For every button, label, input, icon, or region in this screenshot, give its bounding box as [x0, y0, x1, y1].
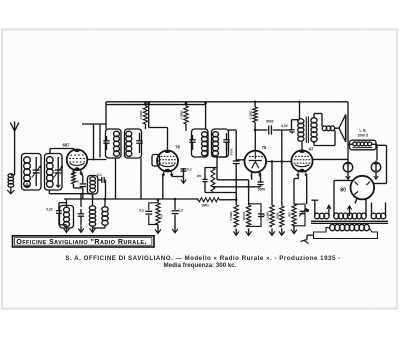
wire TC2 bottom to link: [48, 190, 50, 194]
mains lead and switch S1: [307, 234, 314, 236]
bias resistor R7: [292, 204, 296, 226]
T4 center tap: [349, 207, 351, 216]
coil L3: [47, 157, 54, 164]
bias capacitor C12 loop: [294, 204, 305, 226]
wire tone line down to V3 top: [254, 130, 256, 151]
wire bus to T2: [205, 105, 207, 129]
svg-text:0,5MΩ: 0,5MΩ: [180, 110, 184, 120]
loudspeaker LS1: [339, 115, 346, 142]
ground R7: [293, 226, 295, 228]
wire V3 left pin to detector line: [251, 173, 253, 180]
arrow below C11: [375, 174, 377, 179]
svg-text:25000: 25000: [242, 211, 246, 220]
detector output wire 1: [217, 179, 249, 181]
volume potentiometer P1: [205, 168, 213, 180]
capacitor C17 parallel with R10: [249, 204, 261, 227]
T1 primary trimmer capacitor: [103, 140, 109, 142]
resistor R11 0.1mO plate load: [271, 162, 273, 206]
V3 coupling capacitor C8 5000: [260, 173, 262, 182]
wire T3 secondary to voice coil: [313, 114, 315, 119]
svg-text:5000: 5000: [258, 188, 266, 192]
svg-text:80: 80: [340, 188, 346, 194]
tube V1 6A7 converter: [67, 150, 88, 171]
V5 plate wire: [374, 183, 387, 185]
coil L7: [102, 207, 108, 212]
capacitor C14: [80, 194, 82, 207]
ground R9: [235, 229, 237, 235]
T1 secondary coil: [126, 131, 132, 136]
wire V3 plate to V4 grid: [266, 161, 291, 163]
T4 core: [311, 220, 388, 222]
upper link wire: [78, 193, 93, 195]
AVC bus wire: [64, 198, 198, 200]
wire up to T3 primary: [291, 120, 293, 130]
ground L5: [66, 226, 68, 232]
shield box tuned circuit 2: [45, 154, 63, 191]
wire bus down to filter: [347, 102, 349, 161]
grid capacitor C6: [233, 160, 240, 162]
svg-text:700: 700: [160, 214, 164, 219]
wire T2 secondary bottom to P1: [226, 143, 228, 157]
wire P1 top to detector lines: [213, 167, 217, 169]
T3 secondary coil: [311, 118, 317, 123]
svg-text:1MΩ: 1MΩ: [201, 204, 209, 208]
grid shield box left of V2: [152, 155, 160, 167]
T2 primary trimmer capacitor: [189, 139, 195, 141]
tone capacitor C9 5000: [268, 125, 270, 134]
svg-text:0,1MΩ: 0,1MΩ: [266, 211, 270, 221]
choke output wires: [376, 144, 378, 160]
grid network vertical wires: [235, 179, 238, 182]
shield box tuned circuit 1: [22, 154, 42, 191]
choke core line: [353, 147, 373, 149]
svg-text:47: 47: [309, 147, 314, 152]
svg-text:0,1MΩ: 0,1MΩ: [249, 110, 253, 120]
svg-text:78: 78: [175, 145, 180, 150]
electrolytic capacitor C11: [371, 163, 380, 172]
T4 filament winding 1: [314, 213, 319, 219]
variable capacitor C2: [55, 169, 62, 171]
ground at C5: [183, 177, 185, 183]
IF transformer T2 shield box right: [212, 129, 229, 157]
AVC resistor R4 1mO horizontal: [198, 198, 219, 202]
resistor R10 25000: [246, 205, 250, 227]
ground below L1: [10, 187, 12, 194]
P1 bottom wire: [205, 192, 236, 194]
wire bus to T3: [299, 102, 301, 119]
svg-text:687: 687: [63, 143, 71, 148]
output transformer T3 primary coil: [298, 119, 304, 124]
tube V4 47 output: [291, 150, 312, 171]
T4 primary winding: [330, 224, 335, 230]
arrow below C10: [347, 174, 349, 179]
power transformer T4 high voltage winding: [334, 213, 339, 219]
ground R10: [248, 229, 250, 235]
screen dropping resistor R2: [143, 106, 147, 124]
IF transformer T1 shield box right: [125, 129, 142, 158]
IF transformer T2 shield box left: [192, 129, 209, 157]
capacitor C9b at transformer: [289, 129, 294, 131]
wire V1 plate to IFT1: [88, 159, 107, 161]
ground R11: [271, 229, 273, 235]
filter choke L.B. 2000 ohm: [350, 140, 377, 150]
wire T1 secondary return to AVC bus: [140, 158, 142, 199]
IF transformer T1 shield box left: [106, 129, 122, 158]
tube V3 75 detector: [245, 151, 267, 173]
svg-text:0,1: 0,1: [187, 168, 192, 172]
cathode bypass capacitor C3: [81, 171, 83, 176]
B+ bus wire: [106, 101, 348, 103]
V5 filament leads: [355, 199, 357, 204]
svg-text:2m: 2m: [197, 174, 202, 178]
V4 top cap wire to output transformer: [301, 142, 303, 150]
svg-text:0,2: 0,2: [139, 209, 144, 213]
rectifier tube V5 80: [351, 176, 375, 200]
resistor R8 700: [157, 199, 160, 202]
resistor R12 1mO grid leak: [281, 130, 283, 206]
svg-text:75: 75: [262, 145, 267, 150]
svg-text:0,02: 0,02: [281, 124, 287, 128]
banner box Officine Savigliano Radio Rurale: [13, 236, 155, 247]
V4 filament wire right: [313, 158, 348, 160]
oscillator tracking coil L5: [60, 206, 74, 229]
wire T1 to V2 grid: [148, 105, 150, 128]
arrow at TC2 bottom: [57, 183, 59, 187]
capacitor C7 in P1 branch: [202, 178, 207, 180]
wire C6 to V3 grid: [236, 159, 245, 161]
wire T2 top to grid capacitor C6: [229, 129, 237, 131]
svg-text:Media frequenza: 300 kc.: Media frequenza: 300 kc.: [164, 262, 237, 269]
resistor R5 0.1mO from bus: [254, 102, 256, 107]
coil L2: [24, 157, 31, 164]
svg-text:5000: 5000: [266, 120, 273, 124]
svg-text:2000 Ω: 2000 Ω: [358, 134, 369, 138]
detector output wire 2: [213, 186, 261, 188]
svg-text:1m: 1m: [74, 180, 79, 184]
antenna: [14, 130, 16, 175]
arrow at TC1 bottom: [26, 183, 28, 187]
T2 secondary trimmer capacitor: [223, 139, 229, 141]
ground C16: [174, 226, 176, 232]
T2 secondary coil: [213, 132, 219, 137]
svg-text:0,1: 0,1: [97, 173, 102, 177]
ground C14: [80, 226, 82, 232]
ground L6: [92, 226, 94, 232]
T4 primary enclosure: [314, 228, 378, 239]
T4 filament winding 2: [371, 213, 376, 219]
T1 primary coil: [114, 131, 120, 136]
svg-text:1MΩ: 1MΩ: [276, 212, 280, 219]
wire V5 filament to winding: [333, 180, 335, 212]
voice coil: [322, 126, 326, 131]
svg-text:L. B.: L. B.: [360, 129, 367, 133]
oscillator coil L4: [87, 176, 97, 195]
T3 core: [305, 117, 307, 144]
svg-text:0,2: 0,2: [178, 209, 183, 213]
wire C4 down to AVC bus: [105, 180, 107, 199]
V1 screen lead wires: [93, 124, 95, 161]
cathode resistor R1: [73, 170, 75, 172]
T1 secondary trimmer capacitor: [136, 140, 142, 142]
resistor R9 0.5mO: [235, 198, 238, 201]
coil L6: [89, 206, 95, 210]
svg-text:0,5MΩ: 0,5MΩ: [139, 110, 143, 120]
V2 cathode wire: [162, 174, 164, 200]
V4 cathode down wire: [306, 177, 308, 205]
ground R8: [157, 225, 159, 229]
ground R12: [281, 229, 283, 235]
wire T1 primary return: [115, 158, 117, 199]
V2 cathode bypass capacitor C5: [171, 174, 173, 177]
antenna coupling coil L1: [8, 174, 14, 178]
wire tuned circuit 2 to V1 grid: [49, 149, 51, 154]
electrolytic capacitor C10: [343, 163, 352, 172]
resistor R3: [184, 106, 188, 124]
svg-text:400: 400: [287, 212, 291, 217]
tone wire: [255, 129, 267, 131]
svg-text:5000: 5000: [230, 148, 234, 155]
V4 left pin wire to bias resistor: [297, 177, 299, 179]
svg-text:0,02: 0,02: [46, 208, 52, 212]
tube V2 78 IF amplifier: [157, 151, 178, 172]
T2 primary coil: [202, 132, 208, 137]
svg-text:0,5MΩ: 0,5MΩ: [229, 211, 233, 221]
variable capacitor C1: [33, 169, 40, 171]
